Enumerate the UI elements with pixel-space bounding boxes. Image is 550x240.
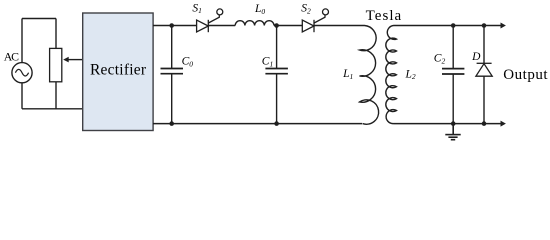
inductor L0 [235,21,274,26]
node: junction bottom of D [482,121,487,126]
svg-text:L2: L2 [405,68,416,81]
node: junction top of D [482,23,487,28]
wire: loop bottom to rectifier [22,108,83,110]
svg-text:D: D [471,51,481,63]
svg-text:L1: L1 [342,68,353,81]
wire: bottom rail L2 to output arrow [394,123,501,125]
svg-text:Tesla: Tesla [366,8,402,24]
svg-text:C0: C0 [182,56,194,69]
wire: AC branch lower [21,83,23,109]
capacitor C0 [161,26,184,124]
output arrow bottom [501,121,506,127]
AC source [12,63,32,83]
thyristor S2 [302,9,328,32]
wire: L0 to S2 [274,25,302,27]
svg-text:AC: AC [4,50,19,64]
node: junction bottom of C0 [169,121,174,126]
wire: S1 to L0 [208,25,235,27]
wire: AC loop top [22,18,56,20]
svg-text:Rectifier: Rectifier [90,62,147,79]
secondary coil L2 [386,26,397,124]
svg-text:C1: C1 [262,56,273,69]
resistor (variac) [50,48,62,81]
wire: resistor branch upper [55,19,57,49]
node: junction top of C0 [169,23,174,28]
diode D [476,26,492,124]
node: junction top of C2 [451,23,456,28]
variac arrow [63,57,82,63]
svg-text:S1: S1 [192,2,202,15]
ground [445,124,460,140]
svg-text:Output: Output [503,67,548,83]
wire: bottom rail rectifier to L1 [153,123,362,125]
thyristor S1 [197,9,223,32]
node: junction bottom of C2 [451,121,456,126]
node: junction bottom of C1 [274,121,279,126]
wire: resistor branch lower [55,82,57,109]
output arrow top [501,23,506,29]
wire: AC branch upper [21,19,23,63]
capacitor C1 [265,26,288,124]
svg-text:C2: C2 [434,53,446,66]
svg-text:S2: S2 [301,3,311,16]
wire: top rail L2 to output arrow [394,25,501,27]
capacitor C2 [442,26,464,124]
svg-text:L0: L0 [254,3,265,16]
node: junction top of C1 [274,23,279,28]
wire: S2 to L1 and primary coil L1 [314,26,379,125]
wire: top rail rectifier to S1 [153,25,197,27]
rectifier U1 [83,13,153,131]
